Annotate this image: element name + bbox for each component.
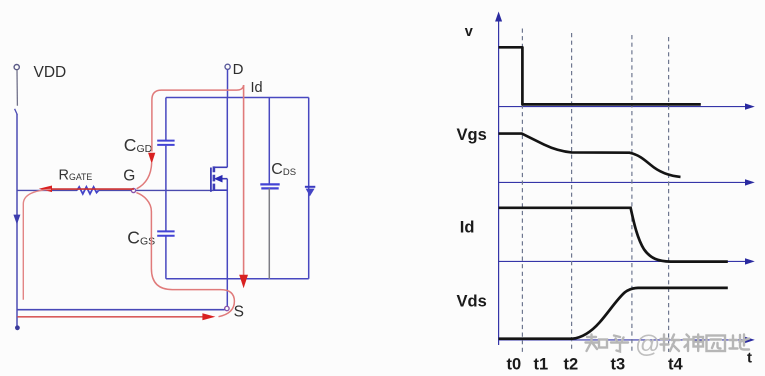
- red arrow into C_GD: [148, 153, 155, 164]
- wire blue: bottom source line: [17, 309, 225, 311]
- switch blade: [15, 109, 18, 115]
- svg-text:t: t: [747, 350, 752, 367]
- terminal D: [225, 64, 230, 69]
- waveform v: [499, 47, 701, 104]
- transistor Q1 source connection: [214, 189, 227, 191]
- wire right vertical (body diode branch): [308, 98, 310, 279]
- waveform Vgs: [499, 134, 681, 177]
- terminal VDD: [14, 65, 19, 70]
- wire C_DS branch upper: [268, 98, 270, 185]
- svg-text:D: D: [233, 61, 244, 78]
- wire red: top branch from Id into C_GD: [152, 85, 244, 151]
- axis row2 (Vgs): [499, 181, 746, 183]
- red arrow toward S (pointing right): [202, 313, 215, 320]
- svg-text:RGATE: RGATE: [59, 167, 93, 183]
- axis row3 (Id): [499, 260, 746, 262]
- axis row1 (v): [499, 106, 746, 108]
- svg-text:Id: Id: [460, 219, 475, 237]
- red arrow at gate (pointing left): [39, 186, 52, 193]
- transistor Q1 drain connection: [214, 166, 227, 168]
- svg-text:Vgs: Vgs: [457, 126, 487, 144]
- wire D stem: [227, 69, 229, 97]
- wire red: drain current vertical: [243, 85, 245, 276]
- wire left vertical bus: [16, 114, 18, 326]
- wire source vertical to S: [226, 179, 228, 307]
- transistor Q1 channel segments: [213, 166, 216, 190]
- svg-text:t2: t2: [564, 356, 579, 374]
- wire box bottom horizontal: [166, 278, 309, 280]
- node G: [131, 188, 135, 192]
- transistor Q1 body arrow: [220, 178, 228, 180]
- wire red: overlay along gate resistor: [52, 188, 135, 190]
- capacitor C_GD: [157, 141, 174, 145]
- wire box top horizontal: [166, 97, 309, 99]
- svg-text:t4: t4: [668, 356, 683, 374]
- svg-text:VDD: VDD: [34, 64, 67, 81]
- dashed line t4: [668, 37, 670, 352]
- dashed line t2: [571, 33, 573, 352]
- red arrow drain current: [239, 275, 248, 288]
- wire red: curve down the left side: [23, 189, 51, 299]
- wire VDD upper segment: [16, 70, 18, 106]
- svg-text:Id: Id: [251, 80, 263, 96]
- terminal S: [225, 306, 229, 310]
- watermark char 乎: [611, 336, 628, 352]
- wire red: C_GD arrow to G: [137, 163, 152, 189]
- svg-text:S: S: [234, 304, 244, 321]
- svg-text:CDS: CDS: [271, 161, 296, 178]
- svg-text:Vds: Vds: [457, 293, 487, 311]
- capacitor C_GS: [157, 231, 174, 235]
- node bottom-left dot: [15, 325, 20, 330]
- dashed line t3: [631, 35, 633, 352]
- watermark char 神: [684, 335, 704, 352]
- svg-text:v: v: [465, 24, 473, 40]
- wire gate horizontal left of resistor: [17, 189, 77, 191]
- wire C_DS branch lower (gray): [268, 188, 270, 278]
- wire drain vertical: [226, 98, 228, 168]
- watermark 知乎 @牧神园地: [586, 331, 750, 359]
- watermark char 牧: [661, 335, 680, 352]
- svg-text:CGD: CGD: [124, 135, 153, 155]
- svg-text:@: @: [635, 331, 660, 359]
- waveform Id: [499, 208, 728, 262]
- svg-text:G: G: [123, 168, 135, 185]
- axis vertical: [498, 20, 500, 345]
- wire gate horizontal right of resistor: [99, 189, 214, 191]
- waveform Vds: [499, 288, 728, 339]
- diode body D1: [305, 186, 315, 188]
- svg-text:t3: t3: [611, 356, 626, 374]
- dashed line t0: [521, 29, 523, 353]
- watermark char 地: [730, 335, 750, 350]
- arrow down on left bus: [13, 215, 20, 225]
- axis row4 (t): [499, 339, 746, 341]
- wire box left vertical (through C_GD / C_GS): [165, 98, 167, 279]
- watermark char 知: [586, 335, 608, 352]
- watermark char 园: [707, 336, 726, 352]
- svg-text:t0: t0: [507, 356, 522, 374]
- transistor Q1 gate bar: [210, 168, 212, 192]
- wire red: bottom return line: [17, 316, 202, 318]
- svg-text:t1: t1: [534, 356, 549, 374]
- capacitor C_DS: [260, 184, 279, 188]
- wire red: G down and around to S: [136, 193, 234, 317]
- resistor R_GATE: [77, 187, 99, 194]
